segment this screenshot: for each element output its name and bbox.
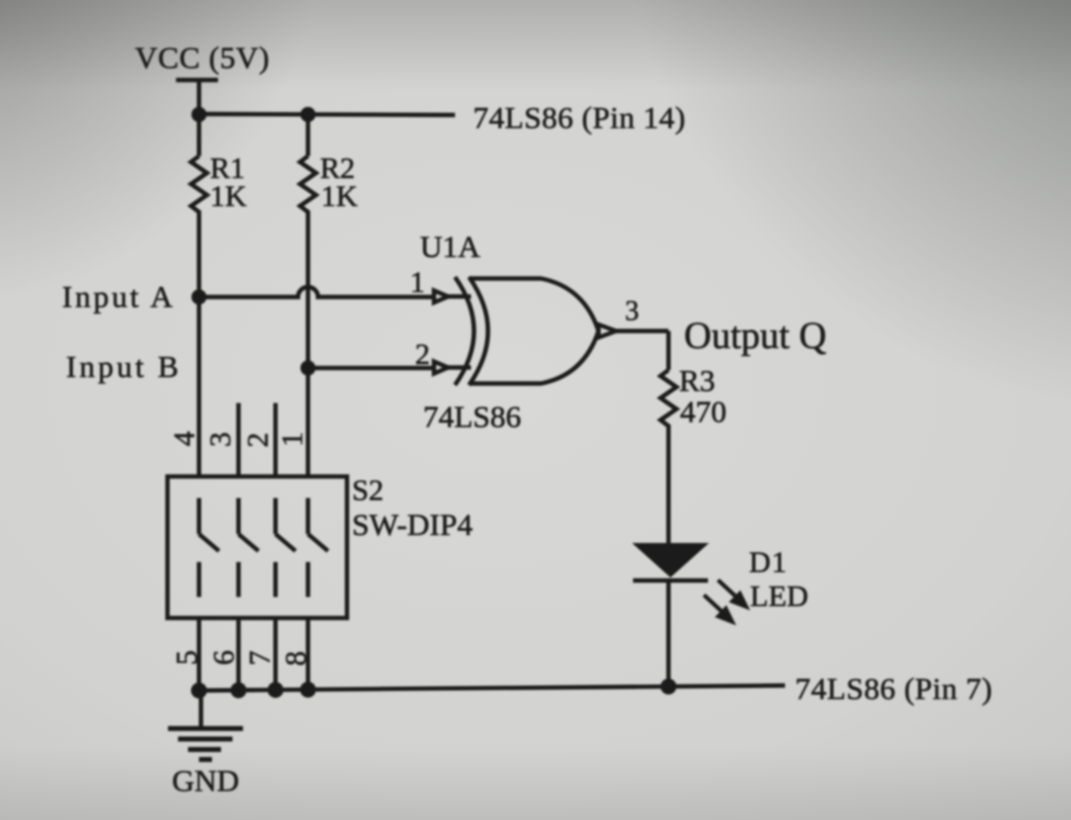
svg-text:Input B: Input B <box>66 349 182 384</box>
svg-text:6: 6 <box>207 650 240 665</box>
svg-text:1: 1 <box>276 432 309 447</box>
svg-text:1K: 1K <box>321 180 358 213</box>
svg-text:R3: R3 <box>679 363 715 398</box>
svg-text:4: 4 <box>168 431 201 446</box>
svg-text:8: 8 <box>280 651 313 666</box>
svg-text:1K: 1K <box>210 180 247 213</box>
svg-text:74LS86: 74LS86 <box>423 399 521 434</box>
svg-text:Input A: Input A <box>62 279 175 314</box>
svg-text:470: 470 <box>680 394 727 429</box>
svg-text:3: 3 <box>625 296 639 327</box>
svg-text:U1A: U1A <box>420 229 481 264</box>
svg-text:3: 3 <box>204 432 237 447</box>
svg-text:GND: GND <box>172 763 239 798</box>
svg-text:74LS86 (Pin 14): 74LS86 (Pin 14) <box>473 100 686 135</box>
svg-text:S2: S2 <box>352 474 384 507</box>
svg-text:2: 2 <box>241 433 274 448</box>
svg-text:7: 7 <box>243 651 276 666</box>
svg-text:1: 1 <box>410 266 425 299</box>
svg-text:D1: D1 <box>749 546 788 579</box>
svg-text:74LS86 (Pin 7): 74LS86 (Pin 7) <box>795 671 992 706</box>
svg-text:2: 2 <box>415 338 430 371</box>
svg-text:VCC (5V): VCC (5V) <box>135 40 270 75</box>
svg-text:SW-DIP4: SW-DIP4 <box>352 507 473 542</box>
svg-text:5: 5 <box>171 650 204 665</box>
svg-text:Output Q: Output Q <box>684 315 827 357</box>
svg-text:LED: LED <box>750 580 808 613</box>
